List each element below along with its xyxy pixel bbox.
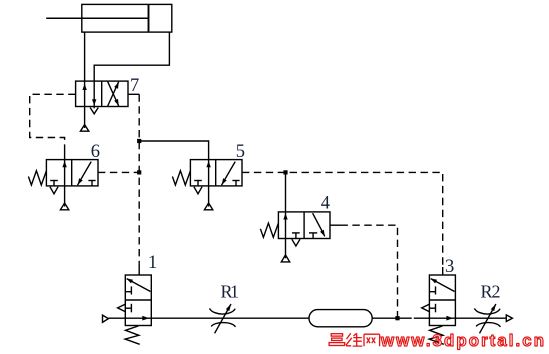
watermark char 网 <box>364 334 380 346</box>
valve U3 (3/2 valve, vertical) <box>422 275 456 344</box>
watermark char 三 <box>329 334 345 346</box>
throttle valve R1 <box>210 304 236 333</box>
valve U4 up flow arrow <box>283 212 287 239</box>
valve U7 supply line and triangle <box>80 107 88 132</box>
pilot wire valve U5 output to junction J3 and valve U3 (dashed) <box>242 172 443 267</box>
valve U4 body (3/2 valve) <box>278 212 330 239</box>
wire valve U6 pilot stub <box>64 152 66 160</box>
svg-text:3: 3 <box>445 257 454 277</box>
valve U6 (3/2 roller valve) <box>28 160 98 210</box>
valve U7 right-box crossed arrows <box>108 82 119 106</box>
valve U4 return spring <box>260 223 278 237</box>
svg-text:1: 1 <box>148 253 157 273</box>
svg-text:7: 7 <box>130 76 139 96</box>
svg-text:R1: R1 <box>221 281 240 301</box>
valve U7 exhaust chevron <box>90 108 98 114</box>
valve U4 blocked port T left box <box>292 233 300 239</box>
supply triangle left (air source) <box>103 315 109 322</box>
pilot wire valve U4 output to main line junction (dashed) <box>341 225 398 318</box>
wire into valve U1 top <box>138 264 140 275</box>
valve U1 (3/2 valve, vertical) <box>118 275 152 344</box>
throttle valve R2 <box>474 304 500 333</box>
wire junction J3 to valve U4 top <box>285 172 287 212</box>
watermark 三维网www.3dportal.cn <box>329 331 544 350</box>
valve U4 blocked port T right box <box>309 233 317 239</box>
valve U4 right-box diagonal arrow <box>313 213 325 236</box>
svg-text:4: 4 <box>321 194 330 214</box>
valve U7 left-box down flow arrow <box>92 81 96 108</box>
wire cylinder right port to valve U7 port B <box>94 32 169 81</box>
wire valve U7 output right stub <box>128 93 139 95</box>
node junction J1 <box>137 139 141 143</box>
accumulator capsule <box>309 310 372 327</box>
cylinder piston <box>148 4 150 32</box>
exhaust triangle right end <box>506 315 512 322</box>
wire valve U6 output to junction J2 (dashed) <box>98 171 139 173</box>
valve U5 (3/2 roller valve) <box>172 160 242 210</box>
svg-text:R2: R2 <box>481 282 501 302</box>
wire into valve U3 top <box>442 267 444 275</box>
cylinder body <box>82 4 172 32</box>
pilot bus dashed vertical to valve U1 <box>138 94 140 263</box>
svg-text:6: 6 <box>91 142 100 162</box>
main pneumatic line right section <box>372 317 506 319</box>
cylinder piston rod <box>46 17 148 19</box>
svg-text:www.3dportal.cn: www.3dportal.cn <box>380 331 544 350</box>
node junction J3 <box>283 170 287 174</box>
valve U4 supply line and triangle <box>281 239 289 262</box>
wire cylinder left port to valve U7 port A <box>84 32 86 81</box>
pilot wire valve U6 output to valve U7 left pilot (dashed) <box>30 94 76 151</box>
valve U4 exhaust chevron <box>292 239 300 246</box>
valve U7 body (4/2 directional valve) <box>76 81 128 106</box>
node junction J4 on main line <box>395 316 399 320</box>
node junction J2 <box>137 170 141 174</box>
main pneumatic line left section <box>108 317 309 319</box>
svg-text:5: 5 <box>236 142 245 162</box>
valve U7 left-box up flow arrow <box>82 81 86 106</box>
wire junction J1 to valve U5 top <box>139 141 208 160</box>
watermark char 维 <box>346 333 362 346</box>
wire valve U4 output stub <box>330 224 341 226</box>
